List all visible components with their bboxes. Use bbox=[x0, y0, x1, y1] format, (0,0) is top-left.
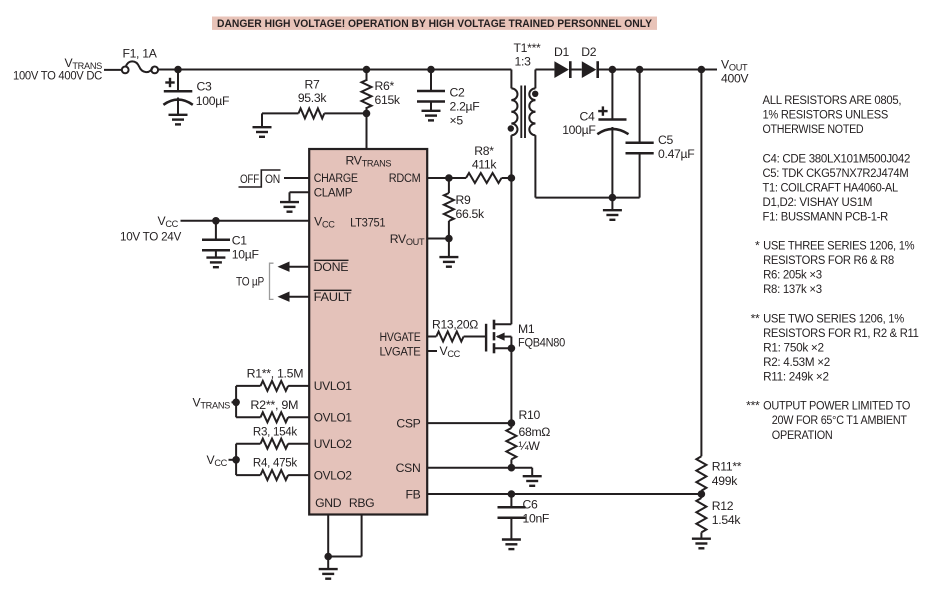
node TO uP label bbox=[236, 263, 274, 299]
ground R12 bbox=[692, 539, 711, 549]
fuse F1 bbox=[122, 47, 158, 74]
wire GND pin bbox=[327, 515, 329, 557]
resistor R11 bbox=[696, 456, 741, 494]
svg-text:M1: M1 bbox=[518, 322, 535, 336]
svg-text:RDCM: RDCM bbox=[389, 171, 421, 185]
svg-text:0.47µF: 0.47µF bbox=[658, 147, 694, 161]
svg-text:400V: 400V bbox=[721, 72, 749, 86]
svg-text:F1: BUSSMANN PCB-1-R: F1: BUSSMANN PCB-1-R bbox=[763, 210, 889, 224]
node VTRANS input label bbox=[13, 56, 102, 83]
transistor M1 source stub bbox=[494, 347, 511, 349]
resistor R13 bbox=[427, 318, 486, 342]
ground C3 bbox=[169, 115, 188, 125]
transformer T1 core bbox=[521, 86, 525, 139]
svg-text:TO µP: TO µP bbox=[236, 274, 264, 288]
capacitor C6 bbox=[498, 494, 550, 539]
warning banner bbox=[212, 17, 657, 31]
resistor R1 bbox=[236, 367, 309, 391]
svg-text:R6*: R6* bbox=[375, 79, 395, 93]
svg-text:1:3: 1:3 bbox=[515, 55, 532, 69]
svg-text:C2: C2 bbox=[450, 86, 466, 100]
svg-text:100µF: 100µF bbox=[562, 123, 595, 137]
svg-text:ALL RESISTORS ARE 0805,: ALL RESISTORS ARE 0805, bbox=[763, 93, 902, 107]
capacitor C1 bbox=[202, 221, 259, 262]
svg-text:615k: 615k bbox=[375, 93, 401, 107]
svg-text:R8*: R8* bbox=[474, 144, 494, 158]
svg-text:VCC: VCC bbox=[440, 344, 461, 359]
svg-text:D1,D2: VISHAY US1M: D1,D2: VISHAY US1M bbox=[763, 195, 873, 209]
svg-text:CSP: CSP bbox=[396, 417, 420, 431]
svg-text:499k: 499k bbox=[712, 474, 738, 488]
wire M1 source to CSP bbox=[510, 348, 512, 423]
svg-text:20W FOR 65°C T1 AMBIENT: 20W FOR 65°C T1 AMBIENT bbox=[772, 413, 908, 427]
svg-text:RESISTORS FOR R1, R2 & R11: RESISTORS FOR R1, R2 & R11 bbox=[763, 326, 919, 340]
svg-text:C5: TDK CKG57NX7R2J474M: C5: TDK CKG57NX7R2J474M bbox=[763, 166, 909, 180]
node OFF-ON step symbol bbox=[239, 170, 281, 187]
svg-text:OPERATION: OPERATION bbox=[772, 428, 833, 442]
wire UVLO2-OVLO2 bracket bbox=[235, 444, 237, 475]
svg-text:VTRANS: VTRANS bbox=[193, 396, 231, 411]
resistor R2 bbox=[236, 398, 309, 422]
svg-text:10V TO 24V: 10V TO 24V bbox=[120, 230, 182, 244]
svg-text:95.3k: 95.3k bbox=[298, 91, 328, 105]
svg-text:C3: C3 bbox=[197, 80, 213, 94]
svg-text:R11**: R11** bbox=[712, 460, 742, 474]
capacitor C5 bbox=[626, 70, 695, 198]
node M1 source junction bbox=[508, 345, 516, 353]
wire UVLO1-OVLO1 bracket bbox=[235, 386, 237, 417]
svg-text:UVLO2: UVLO2 bbox=[314, 437, 353, 451]
svg-text:USE TWO SERIES 1206, 1%: USE TWO SERIES 1206, 1% bbox=[763, 311, 904, 325]
svg-text:**: ** bbox=[751, 311, 760, 325]
transformer T1 primary winding bbox=[511, 41, 541, 324]
node VOUT output label bbox=[721, 58, 749, 86]
ground R7 bbox=[253, 127, 272, 137]
wire secondary bottom rail bbox=[535, 197, 639, 199]
svg-text:C4: C4 bbox=[580, 109, 596, 123]
resistor R3 bbox=[236, 424, 309, 448]
wire RVOUT pin bbox=[427, 238, 449, 240]
svg-text:C6: C6 bbox=[523, 498, 539, 512]
svg-text:F1, 1A: F1, 1A bbox=[122, 47, 157, 61]
node secondary ground junction bbox=[609, 194, 617, 202]
svg-text:R2: 4.53M ×2: R2: 4.53M ×2 bbox=[763, 355, 830, 369]
svg-text:411k: 411k bbox=[472, 158, 498, 172]
svg-text:RESISTORS FOR R6 & R8: RESISTORS FOR R6 & R8 bbox=[763, 253, 894, 267]
node VTRANS divider junction bbox=[232, 399, 240, 407]
svg-text:T1: COILCRAFT HA4060-AL: T1: COILCRAFT HA4060-AL bbox=[763, 180, 899, 194]
svg-text:¼W: ¼W bbox=[519, 439, 541, 453]
svg-text:ON: ON bbox=[265, 172, 280, 186]
node VCC input label bbox=[120, 214, 182, 244]
svg-text:UVLO1: UVLO1 bbox=[314, 379, 353, 393]
ground CLAMP bbox=[280, 202, 299, 212]
node GND-RBG junction bbox=[324, 553, 332, 561]
wire FB rail bbox=[427, 493, 701, 495]
svg-text:T1***: T1*** bbox=[514, 41, 542, 55]
diode D1 bbox=[554, 45, 570, 78]
wire RDCM pin bbox=[427, 177, 449, 179]
svg-text:D1: D1 bbox=[554, 45, 570, 59]
svg-text:VCC: VCC bbox=[157, 214, 178, 229]
ground RVOUT bbox=[439, 239, 458, 267]
wire VCC rail bbox=[181, 220, 310, 222]
svg-text:FQB4N80: FQB4N80 bbox=[518, 336, 565, 350]
node top rail R6 bbox=[363, 66, 371, 74]
svg-text:OUTPUT POWER LIMITED TO: OUTPUT POWER LIMITED TO bbox=[763, 399, 910, 413]
svg-text:FAULT: FAULT bbox=[314, 290, 352, 304]
node VCC divider label bbox=[206, 453, 236, 468]
svg-text:2.2µF: 2.2µF bbox=[450, 100, 480, 114]
svg-text:***: *** bbox=[746, 399, 760, 413]
node LVGATE VCC label bbox=[427, 344, 460, 359]
node C5 top junction bbox=[636, 66, 644, 74]
resistor R6 bbox=[362, 70, 401, 114]
svg-text:R2**, 9M: R2**, 9M bbox=[250, 398, 298, 412]
svg-text:66.5k: 66.5k bbox=[456, 207, 486, 221]
resistor R9 bbox=[444, 178, 485, 239]
svg-text:USE THREE SERIES 1206, 1%: USE THREE SERIES 1206, 1% bbox=[763, 239, 915, 253]
svg-text:HVGATE: HVGATE bbox=[380, 330, 421, 344]
transformer T1 secondary winding bbox=[529, 70, 535, 198]
svg-text:68mΩ: 68mΩ bbox=[519, 425, 551, 439]
node VTRANS divider label bbox=[193, 396, 237, 411]
resistor R4 bbox=[236, 456, 309, 480]
ground C2 bbox=[422, 111, 441, 121]
resistor R8 bbox=[449, 144, 512, 183]
capacitor C4 bbox=[562, 70, 628, 198]
transistor M1 gate bbox=[485, 324, 487, 352]
svg-text:R8: 137k ×3: R8: 137k ×3 bbox=[763, 282, 822, 296]
node top rail C2 bbox=[427, 66, 435, 74]
svg-text:OTHERWISE NOTED: OTHERWISE NOTED bbox=[763, 122, 864, 136]
node CSN junction bbox=[508, 464, 516, 472]
svg-text:R4, 475k: R4, 475k bbox=[253, 456, 298, 470]
svg-text:CHARGE: CHARGE bbox=[314, 171, 358, 185]
node RVOUT junction bbox=[445, 235, 453, 243]
svg-text:CLAMP: CLAMP bbox=[314, 186, 353, 200]
svg-text:VOUT: VOUT bbox=[721, 58, 748, 73]
node T1 primary phase dot bbox=[508, 125, 514, 131]
svg-text:OVLO2: OVLO2 bbox=[314, 468, 352, 482]
svg-text:R12: R12 bbox=[712, 499, 734, 513]
svg-text:GND: GND bbox=[315, 496, 342, 510]
svg-text:R11: 249k ×2: R11: 249k ×2 bbox=[763, 370, 829, 384]
svg-text:R10: R10 bbox=[519, 408, 541, 422]
diode D2 bbox=[581, 45, 597, 78]
wire CSN pin bbox=[427, 467, 511, 469]
node R8 primary junction bbox=[508, 174, 516, 182]
svg-text:×5: ×5 bbox=[450, 114, 464, 128]
wire D1 to D2 bbox=[572, 69, 582, 71]
svg-text:DANGER HIGH VOLTAGE! OPERATION: DANGER HIGH VOLTAGE! OPERATION BY HIGH V… bbox=[217, 18, 653, 30]
svg-text:LT3751: LT3751 bbox=[350, 216, 386, 230]
resistor R7 bbox=[262, 77, 367, 127]
svg-text:R9: R9 bbox=[456, 193, 472, 207]
wire CHARGE pin bbox=[284, 177, 309, 179]
svg-text:10µF: 10µF bbox=[232, 248, 259, 262]
resistor R12 bbox=[696, 494, 741, 538]
node R6-R7 junction bbox=[363, 110, 371, 118]
resistor R10 bbox=[506, 408, 550, 468]
svg-text:100V TO 400V DC: 100V TO 400V DC bbox=[13, 69, 102, 83]
svg-text:RBG: RBG bbox=[349, 496, 375, 510]
transistor M1 channel bbox=[493, 320, 496, 354]
ground C1 bbox=[206, 258, 225, 268]
op-amp U1 LT3751 body bbox=[309, 149, 427, 515]
wire RVTRANS pin bbox=[366, 113, 368, 149]
svg-text:DONE: DONE bbox=[314, 260, 349, 274]
svg-text:OFF: OFF bbox=[240, 172, 259, 186]
wire top rail primary side bbox=[158, 69, 511, 71]
wire FAULT with arrow bbox=[278, 292, 310, 302]
svg-text:R3, 154k: R3, 154k bbox=[253, 424, 298, 438]
node C6 junction bbox=[508, 490, 516, 498]
capacitor C3 bbox=[163, 70, 229, 115]
wire VTRANS to fuse bbox=[104, 69, 122, 71]
ground C6 bbox=[502, 540, 521, 550]
node T1 secondary phase dot bbox=[532, 91, 538, 97]
ground secondary bbox=[603, 198, 622, 220]
wire CSP pin bbox=[427, 422, 511, 424]
wire CLAMP pin bbox=[290, 192, 310, 202]
svg-text:C5: C5 bbox=[658, 133, 674, 147]
svg-text:CSN: CSN bbox=[396, 461, 421, 475]
node C1 junction bbox=[212, 217, 220, 225]
svg-text:R7: R7 bbox=[305, 77, 321, 91]
ground GND pin bbox=[319, 557, 338, 579]
node M1 label bbox=[518, 322, 565, 350]
wire RBG pin bbox=[328, 515, 361, 557]
svg-text:10nF: 10nF bbox=[523, 512, 550, 526]
svg-text:D2: D2 bbox=[581, 45, 597, 59]
svg-text:LVGATE: LVGATE bbox=[380, 345, 421, 359]
node C4 top junction bbox=[609, 66, 617, 74]
transistor M1 body arrow bbox=[496, 333, 512, 349]
svg-text:C1: C1 bbox=[232, 234, 248, 248]
wire D2 to VOUT bbox=[599, 69, 717, 71]
svg-text:100µF: 100µF bbox=[196, 94, 229, 108]
svg-text:OVLO1: OVLO1 bbox=[314, 411, 352, 425]
svg-text:R13,20Ω: R13,20Ω bbox=[432, 318, 478, 332]
ground CSN bbox=[511, 468, 541, 486]
node RDCM junction bbox=[445, 174, 453, 182]
wire secondary rail to D1 bbox=[535, 69, 554, 71]
svg-text:FB: FB bbox=[406, 488, 421, 502]
wire VOUT to R11 bbox=[700, 70, 702, 457]
node C3 junction bbox=[174, 66, 182, 74]
svg-text:R6: 205k ×3: R6: 205k ×3 bbox=[763, 268, 822, 282]
capacitor C2 bbox=[417, 70, 479, 128]
node FB R11 R12 junction bbox=[698, 490, 706, 498]
svg-text:1.54k: 1.54k bbox=[712, 513, 742, 527]
wire DONE with arrow bbox=[278, 262, 310, 272]
transistor M1 drain stub bbox=[494, 323, 511, 325]
svg-text:VCC: VCC bbox=[206, 453, 227, 468]
node notes text block bbox=[746, 93, 919, 442]
svg-text:R1**, 1.5M: R1**, 1.5M bbox=[247, 367, 304, 381]
svg-text:R1: 750k ×2: R1: 750k ×2 bbox=[763, 341, 824, 355]
svg-text:C4: CDE 380LX101M500J042: C4: CDE 380LX101M500J042 bbox=[763, 151, 911, 165]
svg-text:*: * bbox=[755, 239, 760, 253]
node CSP junction bbox=[508, 419, 516, 427]
node VOUT junction bbox=[698, 66, 706, 74]
node VCC divider junction bbox=[232, 456, 240, 464]
svg-text:1% RESISTORS UNLESS: 1% RESISTORS UNLESS bbox=[763, 108, 889, 122]
